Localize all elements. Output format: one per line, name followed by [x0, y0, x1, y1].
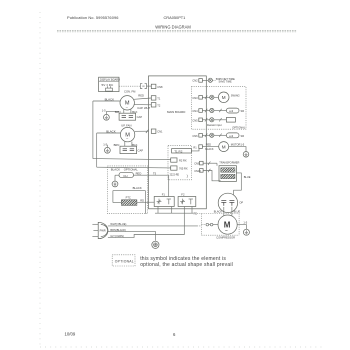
svg-text:e•3: e•3 — [229, 134, 233, 138]
svg-text:R2 RX: R2 RX — [179, 158, 187, 162]
wire heater to T5 — [115, 175, 169, 181]
svg-text:T5: T5 — [153, 172, 157, 176]
svg-text:CH: CH — [123, 174, 127, 178]
wire motor to ground G5 — [229, 147, 246, 152]
pin CN10 transformer secondary — [194, 169, 221, 181]
svg-text:BLUE: BLUE — [234, 210, 241, 213]
svg-text:CN5: CN5 — [192, 119, 198, 123]
svg-text:765 RX: 765 RX — [179, 166, 188, 170]
display board module — [99, 77, 121, 91]
fan motor M2 — [120, 127, 134, 141]
PTC P1 — [113, 196, 154, 206]
svg-text:Resistor input: Resistor input — [207, 124, 222, 127]
capacitor C2 — [114, 142, 144, 154]
ground G4 — [152, 241, 159, 248]
svg-text:MOTOR: MOTOR — [231, 142, 241, 146]
svg-text:BLACK: BLACK — [105, 97, 115, 101]
svg-text:6: 6 — [173, 332, 176, 337]
svg-text:OPTIONAL: OPTIONAL — [124, 167, 139, 171]
wire RED M1 to pins — [134, 98, 152, 105]
svg-text:SR: SR — [241, 134, 245, 138]
row CN5 resistor input — [192, 118, 235, 128]
svg-text:M: M — [222, 95, 226, 100]
wire BLACK M2 — [97, 132, 121, 134]
header rule — [57, 30, 297, 32]
wire left loop M2 — [96, 133, 98, 167]
svg-text:e•3: e•3 — [229, 109, 233, 113]
heater CH1 — [119, 171, 141, 178]
svg-text:CAP. WHT: CAP. WHT — [137, 106, 150, 110]
overload protector OLP — [218, 193, 243, 212]
inline connector to compressor — [206, 223, 218, 226]
relay 765RX — [171, 166, 188, 170]
ground G2 — [103, 142, 110, 153]
svg-text:CAP: CAP — [137, 115, 143, 119]
pin CN8 — [151, 84, 156, 88]
transformer T1 — [219, 161, 239, 182]
svg-text:BLACK: BLACK — [111, 167, 120, 171]
svg-text:WHT(=BLUE): WHT(=BLUE) — [110, 222, 126, 226]
OLP leads to compressor — [223, 207, 225, 216]
svg-text:RED: RED — [138, 93, 144, 97]
svg-text:F1: F1 — [162, 193, 166, 197]
compressor M5 — [216, 215, 237, 240]
svg-text:F2: F2 — [181, 193, 185, 197]
pin T — [151, 103, 156, 107]
svg-text:10/09: 10/09 — [65, 331, 76, 336]
row CN4 sensor — [192, 108, 244, 113]
svg-text:SR: SR — [241, 109, 245, 113]
row CN2 wifi module — [192, 77, 235, 84]
svg-text:M: M — [222, 144, 226, 149]
fan motor M1 — [120, 96, 134, 110]
sensor on display board — [106, 86, 113, 91]
svg-text:PTC: PTC — [126, 196, 131, 200]
svg-text:CN9: CN9 — [194, 162, 200, 166]
svg-text:CN6: CN6 — [192, 134, 198, 138]
svg-text:MAIN BOARD: MAIN BOARD — [167, 110, 185, 114]
svg-text:): ) — [187, 174, 188, 178]
svg-text:optional, the actual shape sha: optional, the actual shape shall prevail — [140, 262, 233, 268]
row R1 fan motor — [193, 144, 218, 151]
pin F — [151, 96, 156, 100]
svg-text:DISPLAY BOARD: DISPLAY BOARD — [100, 78, 120, 81]
svg-text:BLUE: BLUE — [244, 175, 251, 179]
pin CN9 transformer primary — [194, 161, 217, 165]
optional box left — [107, 166, 147, 214]
wire display board to CN8 — [119, 85, 140, 87]
wire bus into relay 765RX — [97, 166, 171, 169]
svg-text:G/Y(=GRN): G/Y(=GRN) — [110, 234, 124, 238]
relay F2 — [178, 193, 196, 207]
page margin fold marks — [39, 12, 41, 345]
wire M2 to CN1 — [135, 130, 149, 132]
ground G5 — [243, 152, 249, 158]
svg-text:CN3: CN3 — [192, 96, 198, 100]
svg-text:WIRING DIAGRAM: WIRING DIAGRAM — [155, 24, 191, 29]
svg-text:T1: T1 — [157, 96, 161, 100]
svg-text:1-5: 1-5 — [243, 221, 247, 225]
relay R2RX — [171, 158, 187, 162]
relay block T1R2 — [172, 148, 199, 153]
svg-text:UP. FAN: UP. FAN — [121, 124, 131, 128]
svg-text:BLACK: BLACK — [106, 129, 116, 133]
svg-text:R1: R1 — [193, 145, 197, 149]
svg-text:CN8: CN8 — [157, 85, 163, 89]
wire bus into relay R2RX — [93, 159, 171, 160]
ground G3 — [112, 181, 118, 187]
svg-text:BLACK: BLACK — [214, 210, 223, 213]
ground G1 — [102, 108, 119, 120]
legend optional box — [112, 255, 135, 266]
svg-text:T1 R2: T1 R2 — [174, 149, 183, 153]
wire compressor to ground G6 — [237, 225, 246, 230]
svg-text:COMPRESSOR: COMPRESSOR — [216, 236, 235, 240]
power plug P1 — [92, 222, 108, 238]
svg-text:BRN(BLACK): BRN(BLACK) — [110, 228, 126, 232]
svg-text:RD: RD — [140, 198, 144, 202]
svg-text:T2: T2 — [157, 103, 161, 107]
svg-text:1-5: 1-5 — [102, 108, 106, 112]
main board U1 — [149, 76, 207, 209]
svg-text:CRA050PT1: CRA050PT1 — [164, 15, 186, 20]
svg-text:SAVE TIME: SAVE TIME — [219, 80, 232, 83]
svg-text:CON. FM: CON. FM — [124, 90, 136, 94]
pin CN1 — [151, 129, 156, 133]
svg-text:BLACK: BLACK — [133, 186, 142, 190]
svg-text:2222-RD: 2222-RD — [170, 173, 180, 176]
optional box right — [191, 87, 246, 130]
row CN6 sensor — [192, 133, 244, 138]
wire BRN line to ground — [108, 228, 155, 241]
svg-text:TRANSFORMER: TRANSFORMER — [219, 161, 239, 165]
dotted optional outline compressor — [197, 214, 239, 236]
optional sub-box on board — [168, 145, 192, 179]
svg-text:OPTIONAL: OPTIONAL — [115, 259, 134, 263]
wire left loop M1 — [92, 101, 94, 159]
svg-text:~: ~ — [225, 228, 228, 234]
svg-text:1-5: 1-5 — [103, 142, 107, 146]
svg-text:OPTIONAL: OPTIONAL — [232, 126, 246, 130]
svg-text:CN4: CN4 — [192, 109, 198, 113]
svg-text:BRN: BRN — [114, 143, 120, 147]
wire BLACK M1 — [93, 100, 120, 102]
wire T5 drop to fuse F1 — [168, 175, 170, 196]
svg-text:RED: RED — [136, 171, 142, 175]
capacitor C1 — [115, 110, 143, 121]
inline connector pair — [140, 84, 151, 89]
bottom bus from relays — [155, 207, 193, 214]
wire BLUE transformer to OLP — [234, 173, 242, 195]
svg-text:CN1: CN1 — [157, 130, 163, 134]
svg-text:CAP: CAP — [138, 148, 144, 152]
svg-text:RED: RED — [206, 144, 211, 147]
svg-text:1-5: 1-5 — [241, 142, 245, 146]
svg-text:PWR: PWR — [100, 228, 106, 232]
swing motor M3 — [218, 92, 239, 103]
motor M4 — [219, 142, 245, 152]
svg-text:RD: RD — [194, 212, 198, 215]
svg-text:BLACK: BLACK — [205, 148, 214, 151]
wire GY ground line — [108, 207, 184, 238]
relay F1 — [154, 193, 174, 207]
wire WHT line — [108, 222, 201, 226]
svg-text:CN2: CN2 — [192, 79, 198, 83]
svg-text:OP: OP — [239, 201, 243, 205]
svg-text:Publication No. 5995576096: Publication No. 5995576096 — [67, 15, 119, 20]
row CN3 swing motor — [192, 95, 218, 100]
ground G6 — [243, 229, 249, 235]
svg-text:SWING: SWING — [231, 94, 240, 98]
